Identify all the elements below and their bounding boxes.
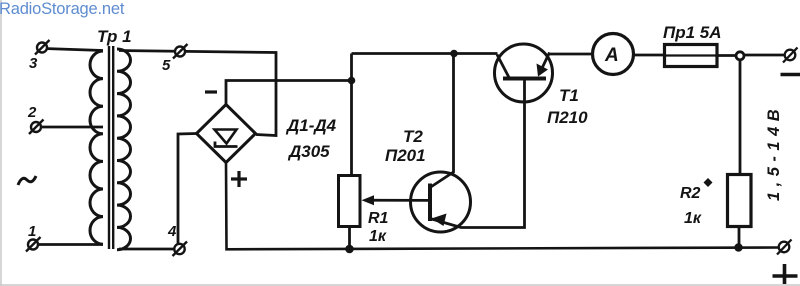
transistor T1 circle	[495, 44, 553, 102]
terminal 5	[173, 44, 188, 59]
svg-text:Тр 1: Тр 1	[97, 27, 132, 46]
bridge plus sign	[231, 171, 247, 187]
wire terminal1 to primary bottom	[35, 243, 103, 246]
R2 star marker	[704, 178, 713, 187]
wire fuse to node	[717, 54, 736, 57]
scan edge artifact left	[0, 0, 2, 286]
output terminal minus	[783, 48, 798, 63]
R1 wiper arrow from T2 base	[366, 199, 430, 202]
wire terminal 4 up to bridge AC left	[178, 134, 197, 245]
resistor R1 potentiometer body	[339, 176, 361, 227]
bridge diode symbol	[215, 130, 238, 147]
terminal 2	[29, 120, 44, 135]
node junction at 454,53	[450, 50, 458, 58]
terminal 4	[173, 242, 188, 257]
transformer primary winding	[90, 51, 103, 244]
svg-text:П201: П201	[385, 146, 426, 165]
wire terminal2 to primary tap	[38, 126, 103, 129]
bridge rectifier D1-D4 diamond	[197, 105, 256, 163]
svg-text:1,5-14В: 1,5-14В	[765, 104, 783, 201]
terminal 1	[26, 237, 41, 252]
node small circle at fuse/R2/output	[736, 52, 744, 60]
wire node down to R2	[739, 60, 742, 175]
scan edge artifact bottom	[0, 284, 800, 286]
output terminal plus	[777, 240, 792, 255]
bridge minus sign	[205, 90, 217, 93]
terminal 3	[35, 40, 50, 55]
node junction at 351,80	[348, 77, 356, 85]
svg-text:Т2: Т2	[403, 127, 423, 146]
svg-text:Д305: Д305	[287, 142, 330, 161]
wire bridge minus up and right to node	[226, 81, 352, 105]
output minus sign	[781, 73, 800, 77]
svg-text:R2: R2	[680, 185, 701, 202]
fuse Pr1 body	[665, 45, 718, 67]
wire ammeter to fuse	[634, 54, 666, 57]
resistor R2 body	[728, 175, 752, 227]
svg-text:1: 1	[28, 223, 36, 240]
svg-text:5: 5	[162, 57, 171, 74]
svg-text:Т1: Т1	[559, 86, 579, 105]
wire vertical minus bus x351	[350, 54, 353, 177]
T1 emitter arrow	[537, 64, 549, 77]
svg-text:2: 2	[27, 104, 37, 121]
svg-text:R1: R1	[368, 210, 389, 227]
wire terminal3 to primary top	[44, 49, 103, 51]
T2 base bar	[428, 184, 432, 222]
svg-text:1к: 1к	[369, 228, 387, 245]
svg-text:П210: П210	[547, 108, 588, 127]
T2 emitter lead to T1 base	[430, 79, 525, 228]
AC tilde symbol	[18, 176, 36, 185]
transistor T2 circle	[411, 172, 471, 232]
wire bottom rail from bridge plus to output plus	[226, 163, 780, 250]
wire top rail to T1 collector	[352, 52, 498, 55]
T2 collector lead up to top rail	[430, 54, 454, 188]
wire R2 bottom to rail	[738, 227, 741, 249]
node junction R1-rail	[345, 245, 354, 254]
T1 base bar	[503, 77, 546, 81]
wire secondary top to bridge AC right, node at x276	[119, 51, 276, 136]
svg-text:Пр1 5А: Пр1 5А	[663, 23, 722, 42]
wire T1 emitter to ammeter	[549, 53, 593, 56]
output plus sign	[773, 264, 798, 284]
svg-text:А: А	[604, 45, 619, 66]
transformer T core	[109, 46, 113, 249]
svg-text:1к: 1к	[684, 210, 702, 227]
wire secondary bottom to terminal 4	[119, 248, 176, 251]
svg-text:RadioStorage.net: RadioStorage.net	[0, 0, 125, 18]
wire node to output minus terminal	[744, 54, 785, 57]
svg-text:Д1-Д4: Д1-Д4	[285, 116, 337, 135]
ammeter A body	[593, 34, 634, 75]
fuse through line	[665, 54, 718, 56]
T1 collector lead	[497, 55, 509, 78]
T1 emitter lead	[539, 53, 550, 75]
node junction R2-rail	[734, 243, 742, 251]
svg-text:3: 3	[29, 55, 38, 72]
transformer secondary winding	[117, 49, 131, 250]
wire R1 bottom to rail	[348, 227, 351, 250]
svg-text:4: 4	[167, 223, 177, 240]
T2 emitter arrow	[432, 214, 447, 227]
